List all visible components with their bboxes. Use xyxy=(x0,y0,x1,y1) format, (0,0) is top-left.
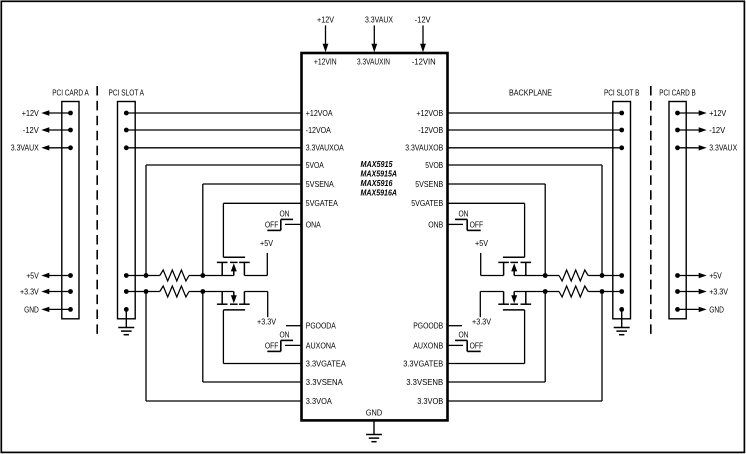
node 5VOA rail junction xyxy=(144,273,149,278)
wire -12VOA slot-A to chip xyxy=(126,129,301,131)
node -12V slot-B pin xyxy=(619,128,624,133)
wire 3.3VOA chip to output rail xyxy=(146,400,302,402)
resistor R 5V sense A xyxy=(160,270,189,281)
wire 3.3VAUX down-arrow into 3.3VAUXIN xyxy=(373,25,375,45)
wire 5VSENA chip to sense point xyxy=(203,183,302,185)
wire 5V FET drain to +5V B xyxy=(481,275,504,277)
connector PCI SLOT B box xyxy=(613,102,631,319)
node +12V card-A pin with arrow xyxy=(68,111,73,116)
node 5V sense junction A xyxy=(200,273,205,278)
wire +3.3V rail slot-A to sense resistor xyxy=(126,291,160,293)
svg-text:3.3VAUX: 3.3VAUX xyxy=(709,143,737,153)
svg-text:PCI CARD B: PCI CARD B xyxy=(659,88,696,98)
node 3.3VAUX card-A pin with arrow xyxy=(68,145,73,150)
svg-text:+12V: +12V xyxy=(317,14,334,24)
transistor Q1B 5V n-channel MOSFET xyxy=(503,256,525,258)
svg-text:3.3VOA: 3.3VOA xyxy=(306,396,332,406)
resistor R 3.3V sense A xyxy=(160,286,189,297)
wire 3.3VOB chip to output rail xyxy=(448,400,603,402)
svg-text:3.3VAUXOB: 3.3VAUXOB xyxy=(405,143,443,153)
wire dashed backplane/card boundary B xyxy=(650,86,652,336)
node +3.3V slot-A pin xyxy=(124,289,129,294)
svg-text:3.3VGATEA: 3.3VGATEA xyxy=(306,358,346,368)
connector PCI SLOT A box xyxy=(118,102,136,319)
svg-text:ON: ON xyxy=(459,330,469,340)
resistor R 3.3V sense B xyxy=(559,286,588,297)
node -12V card-B pin with arrow xyxy=(675,128,680,133)
svg-text:ON: ON xyxy=(280,209,290,219)
svg-text:ONB: ONB xyxy=(428,219,443,229)
node GND slot-B pin xyxy=(619,307,624,312)
svg-text:+12V: +12V xyxy=(709,108,726,118)
svg-text:3.3VOB: 3.3VOB xyxy=(417,396,443,406)
wire 3.3V FET gate lead A xyxy=(222,310,224,364)
svg-text:GND: GND xyxy=(366,407,382,417)
node ONA on/off control xyxy=(285,223,302,225)
node 3.3V sense junction A xyxy=(200,289,205,294)
node 3.3V sense junction B xyxy=(543,289,548,294)
wire 3.3VGATEB to chip xyxy=(448,363,525,365)
wire 3.3V FET gate lead B xyxy=(524,310,526,364)
node +3.3V card-B pin with arrow xyxy=(675,289,680,294)
svg-text:5VGATEA: 5VGATEA xyxy=(306,198,338,208)
svg-text:ON: ON xyxy=(459,209,469,219)
svg-text:+3.3V: +3.3V xyxy=(20,286,39,296)
wire -12V down-arrow into -12VIN xyxy=(422,25,424,45)
svg-text:5VSENB: 5VSENB xyxy=(415,179,443,189)
svg-text:OFF: OFF xyxy=(265,341,279,351)
transistor Q2A 3.3V n-channel MOSFET xyxy=(223,309,245,311)
node GND slot-A pin xyxy=(124,307,129,312)
svg-text:MAX5915A: MAX5915A xyxy=(361,169,398,178)
svg-text:+3.3V: +3.3V xyxy=(257,316,276,326)
wire 5VGATEA chip to Q gate xyxy=(223,202,301,204)
svg-text:3.3VAUX: 3.3VAUX xyxy=(11,143,39,153)
svg-text:-12V: -12V xyxy=(415,14,431,24)
svg-text:+5V: +5V xyxy=(26,270,39,280)
node GND card-A pin with arrow xyxy=(68,307,73,312)
node +3.3V slot-B pin xyxy=(619,289,624,294)
svg-text:MAX5916: MAX5916 xyxy=(361,179,393,188)
wire 5VOB chip to output rail xyxy=(448,164,603,166)
svg-text:PCI CARD A: PCI CARD A xyxy=(52,88,89,98)
wire PGOODB stub xyxy=(448,325,463,327)
node 5VOB rail junction xyxy=(600,273,605,278)
svg-text:AUXONB: AUXONB xyxy=(413,340,443,350)
svg-text:5VOA: 5VOA xyxy=(306,160,324,170)
wire 3.3VSENB chip to sense point xyxy=(448,381,546,383)
wire 3.3V FET drain to +3.3V A xyxy=(244,291,267,293)
svg-text:PGOODA: PGOODA xyxy=(306,321,336,331)
wire 3.3VAUXOB slot-B to chip xyxy=(448,147,622,149)
node AUXONA on/off control xyxy=(285,344,302,346)
ground slot-A GND xyxy=(125,309,127,327)
wire +12VOB slot-B to chip xyxy=(448,112,622,114)
svg-text:3.3VSENA: 3.3VSENA xyxy=(306,377,343,387)
node AUXONB on/off control xyxy=(448,344,464,346)
svg-text:AUXONA: AUXONA xyxy=(306,340,336,350)
wire 3.3VSENA chip to sense point xyxy=(203,381,302,383)
svg-text:PCI SLOT A: PCI SLOT A xyxy=(109,88,145,98)
wire +5V rail slot-B to sense resistor xyxy=(588,275,622,277)
wire 5V FET drain to +5V A xyxy=(244,275,267,277)
svg-text:+5V: +5V xyxy=(709,270,722,280)
wire 3.3VGATEA to chip xyxy=(223,363,301,365)
svg-text:GND: GND xyxy=(709,304,724,314)
svg-text:-12V: -12V xyxy=(709,125,725,135)
node 3.3VAUX slot-B pin xyxy=(619,145,624,150)
svg-text:-12V: -12V xyxy=(23,125,39,135)
ground slot-B GND xyxy=(621,309,623,327)
wire +12V down-arrow into +12VIN xyxy=(325,25,327,45)
svg-text:5VGATEB: 5VGATEB xyxy=(411,198,443,208)
transistor Q2B 3.3V n-channel MOSFET xyxy=(503,309,525,311)
node +12V slot-A pin xyxy=(124,111,129,116)
svg-text:3.3VAUXOA: 3.3VAUXOA xyxy=(306,143,344,153)
svg-text:3.3VGATEB: 3.3VGATEB xyxy=(403,358,443,368)
wire resistor to FET source B (5V) xyxy=(514,275,559,277)
svg-text:PGOODB: PGOODB xyxy=(413,321,443,331)
svg-text:GND: GND xyxy=(24,304,39,314)
svg-text:+12VIN: +12VIN xyxy=(314,56,337,66)
svg-text:3.3VAUX: 3.3VAUX xyxy=(365,14,393,24)
transistor Q1A 5V n-channel MOSFET xyxy=(223,256,245,258)
svg-text:5VOB: 5VOB xyxy=(425,160,443,170)
svg-text:ON: ON xyxy=(280,330,290,340)
node ONB on/off control xyxy=(448,223,464,225)
wire +5V rail slot-A to sense resistor xyxy=(126,275,160,277)
svg-text:+5V: +5V xyxy=(475,238,488,248)
wire -12VOB slot-B to chip xyxy=(448,129,622,131)
svg-text:+12VOB: +12VOB xyxy=(416,108,443,118)
svg-text:-12VOB: -12VOB xyxy=(418,125,443,135)
node -12V slot-A pin xyxy=(124,128,129,133)
wire resistor to FET source B (3.3V) xyxy=(514,291,559,293)
wire 3.3V FET drain to +3.3V B xyxy=(480,291,503,293)
node -12V card-A pin with arrow xyxy=(68,128,73,133)
svg-text:-12VOA: -12VOA xyxy=(306,125,331,135)
wire +3.3V rail slot-B to sense resistor xyxy=(588,291,622,293)
svg-text:MAX5915: MAX5915 xyxy=(361,160,393,169)
resistor R 5V sense B xyxy=(559,270,588,281)
svg-text:5VSENA: 5VSENA xyxy=(306,179,334,189)
svg-text:+12V: +12V xyxy=(22,108,39,118)
svg-text:3.3VSENB: 3.3VSENB xyxy=(406,377,443,387)
node 3.3VAUX card-B pin with arrow xyxy=(675,145,680,150)
svg-text:OFF: OFF xyxy=(265,220,279,230)
svg-text:ONA: ONA xyxy=(306,219,321,229)
svg-text:MAX5916A: MAX5916A xyxy=(361,188,398,197)
svg-text:3.3VAUXIN: 3.3VAUXIN xyxy=(357,56,390,66)
node +12V card-B pin with arrow xyxy=(675,111,680,116)
node 3.3VOB rail junction xyxy=(600,289,605,294)
node 3.3VOA rail junction xyxy=(144,289,149,294)
node +5V card-A pin with arrow xyxy=(68,273,73,278)
wire resistor to FET source A (3.3V) xyxy=(189,291,234,293)
svg-text:-12VIN: -12VIN xyxy=(412,56,436,66)
wire 5VSENB chip to sense point xyxy=(448,183,546,185)
wire 3.3VAUXOA slot-A to chip xyxy=(126,147,301,149)
node 3.3VAUX slot-A pin xyxy=(124,145,129,150)
connector PCI CARD A box xyxy=(62,102,79,319)
node +5V slot-A pin xyxy=(124,273,129,278)
svg-text:+5V: +5V xyxy=(260,238,273,248)
node GND card-B pin with arrow xyxy=(675,307,680,312)
wire 5VGATEB chip to Q gate xyxy=(448,202,525,204)
connector PCI CARD B box xyxy=(669,102,686,319)
node +12V slot-B pin xyxy=(619,111,624,116)
node 5V sense junction B xyxy=(543,273,548,278)
wire 5VOA chip to output rail xyxy=(146,164,302,166)
wire resistor to FET source A (5V) xyxy=(189,275,234,277)
ground chip GND xyxy=(373,420,375,434)
svg-text:+3.3V: +3.3V xyxy=(709,286,728,296)
svg-text:OFF: OFF xyxy=(470,220,484,230)
wire dashed backplane/card boundary A xyxy=(96,86,98,336)
svg-text:OFF: OFF xyxy=(470,341,484,351)
node +5V slot-B pin xyxy=(619,273,624,278)
svg-text:+12VOA: +12VOA xyxy=(306,108,333,118)
wire +12VOA slot-A to chip xyxy=(126,112,301,114)
node +5V card-B pin with arrow xyxy=(675,273,680,278)
svg-text:PCI SLOT B: PCI SLOT B xyxy=(604,88,640,98)
svg-text:BACKPLANE: BACKPLANE xyxy=(509,88,552,98)
op-amp U1 MAX5915 hot-swap controller body xyxy=(302,53,448,420)
svg-text:+3.3V: +3.3V xyxy=(472,316,491,326)
node +3.3V card-A pin with arrow xyxy=(68,289,73,294)
wire PGOODA stub xyxy=(286,325,302,327)
